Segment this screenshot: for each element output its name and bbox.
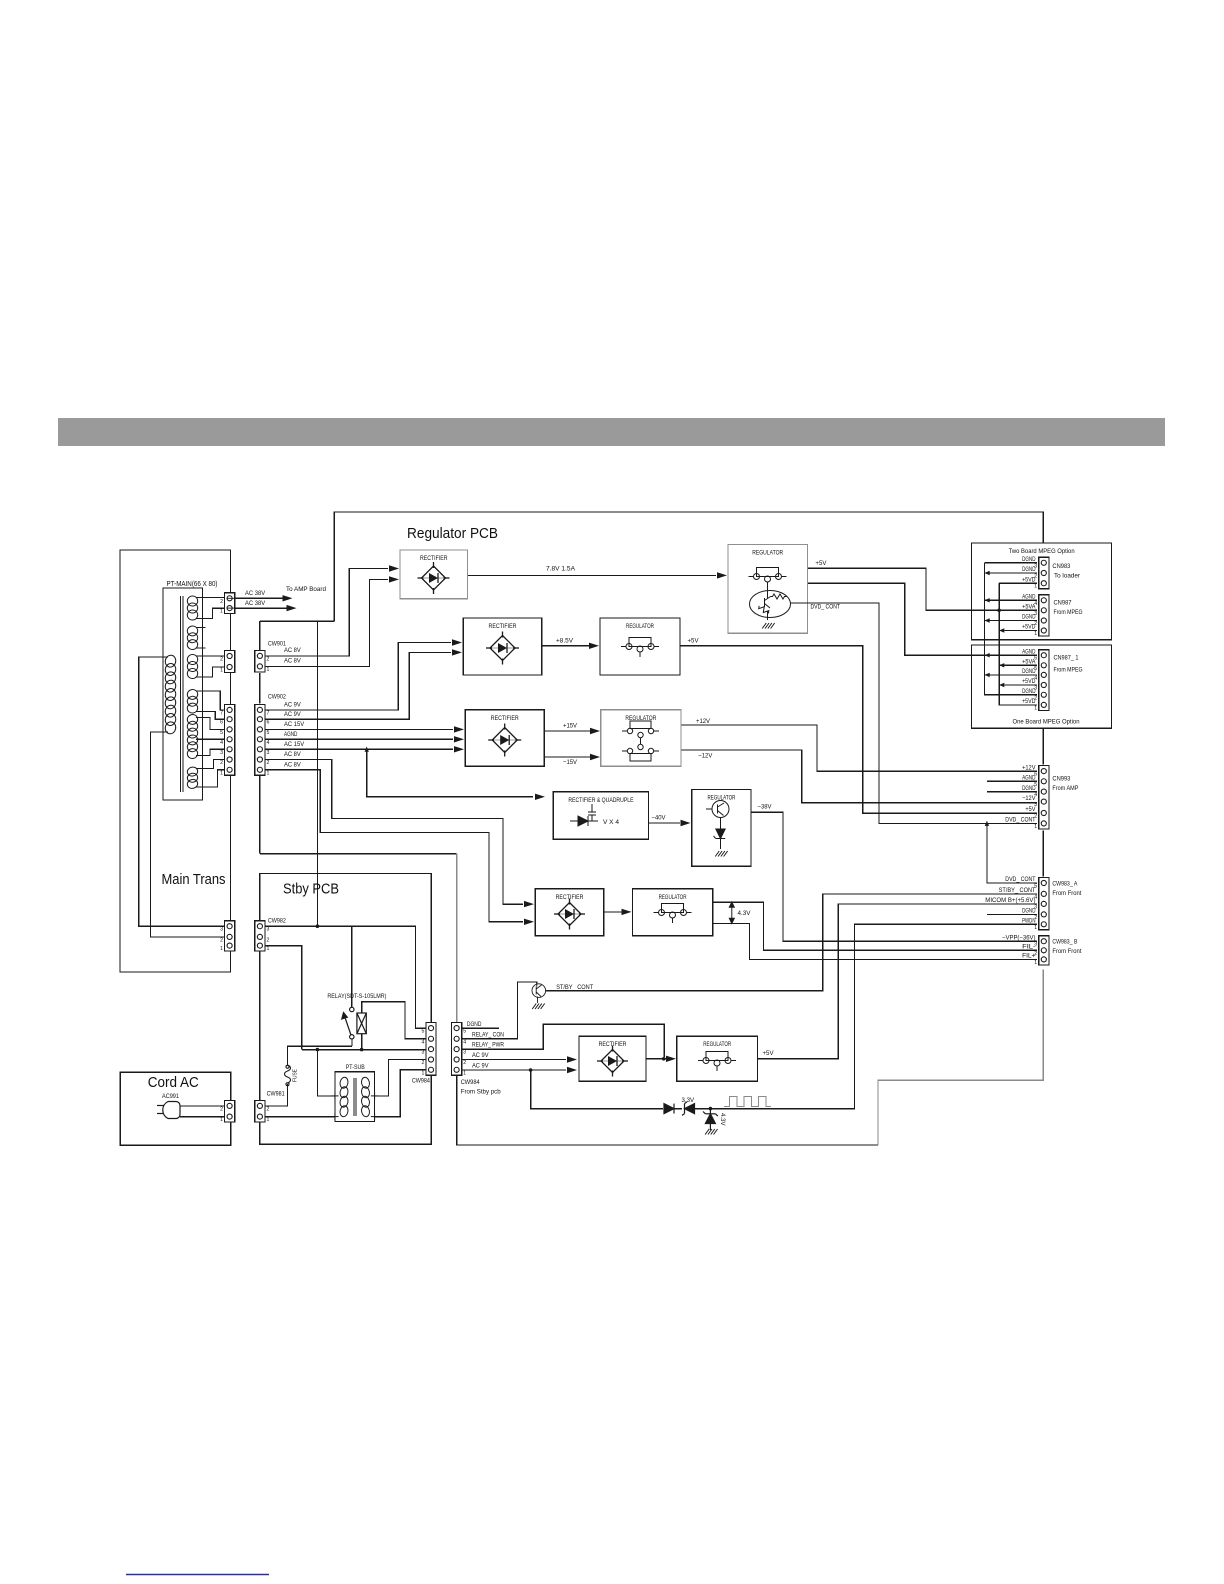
arrowhead rectifier3 in 1 (454, 726, 464, 732)
svg-text:AC 8V: AC 8V (284, 658, 301, 665)
transformer secondary winding S2 (186, 625, 198, 650)
arrowhead regulator2 in (589, 643, 599, 649)
transformer secondary winding S4 (AC 9V) (186, 689, 198, 714)
svg-text:+5V: +5V (688, 637, 700, 644)
wire AC 8V CW902 pin1 to rectifier5 (265, 770, 523, 922)
wire DGND CN987_1 pin2 (985, 694, 1038, 696)
regulator internals REG4 (706, 801, 729, 850)
arrowhead AC 38V top (283, 595, 293, 601)
wire AC 8V CW901 pin1 to rectifier1 (265, 579, 388, 666)
bridge symbol REC1 (418, 562, 450, 594)
wire PT-SUB secondary top to CN984 pin2 (375, 1060, 426, 1096)
svg-text:AC 9V: AC 9V (472, 1052, 489, 1059)
svg-text:1: 1 (267, 667, 270, 673)
wire reg1 gnd to CN987_1 AGND (808, 583, 1038, 655)
svg-text:2: 2 (1034, 621, 1037, 627)
svg-text:AGND: AGND (1022, 648, 1036, 655)
Cord AC board outline (120, 1072, 230, 1145)
wire DGND CW983_A stub (987, 913, 1037, 915)
waveform pulse symbol (724, 1097, 771, 1107)
arrowhead AC 38V bottom (287, 605, 297, 611)
svg-text:From MPEG: From MPEG (1054, 609, 1083, 616)
decor (58, 418, 1165, 446)
connector CW984 (main side) (452, 1023, 467, 1077)
regulator symbol REG5 (654, 904, 692, 924)
svg-text:3.3V: 3.3V (682, 1098, 695, 1104)
wire +5V reg2 to CN993 (680, 646, 1037, 813)
svg-text:5: 5 (267, 730, 270, 736)
connector CW901 (255, 650, 270, 673)
svg-text:+15V: +15V (563, 723, 578, 730)
wire -38V reg4 to CW983_B -VPP (751, 812, 1037, 941)
svg-text:6: 6 (1034, 772, 1037, 778)
wire PT-SUB primary top (317, 1050, 335, 1096)
arrowhead rectifier1 in top (389, 565, 399, 571)
svg-text:2: 2 (267, 760, 270, 766)
wire S5 mid tap to CN pin4 (196, 738, 225, 740)
fuse F901 (285, 1065, 291, 1086)
wire S1 top to AC38V pin2 (196, 597, 225, 599)
svg-text:CW981: CW981 (267, 1090, 285, 1097)
wire S4 top to CN pin7 (196, 691, 225, 710)
regulator block REG1 (728, 545, 808, 634)
wire +5VD CN987_1 pin3 (999, 684, 1037, 686)
transformer secondary winding S1 (AC 38V) (186, 595, 198, 621)
svg-text:1: 1 (1034, 960, 1037, 966)
wire DGND CN983 pin3 (985, 562, 1038, 564)
svg-text:1: 1 (422, 1070, 425, 1076)
Main Trans board outline (120, 550, 231, 972)
junction arrow +5VD 987 (999, 628, 1004, 632)
wire DVD_CONT branch to CW983_A (987, 823, 1037, 883)
svg-text:RECTIFIER & QUADRUPLE: RECTIFIER & QUADRUPLE (568, 797, 634, 804)
regulator block REG3 (601, 710, 681, 767)
svg-text:AC 9V: AC 9V (284, 711, 301, 718)
svg-text:PT-MAIN(66 X 80): PT-MAIN(66 X 80) (167, 581, 218, 588)
wire relay coil bottom (361, 1034, 363, 1050)
relay K901 contacts and arm (342, 1007, 354, 1039)
svg-text:RELAY_ PWR: RELAY_ PWR (472, 1042, 504, 1049)
arrowhead regulator1 in (717, 572, 727, 578)
relay K901 coil (357, 1013, 366, 1034)
svg-text:−15V: −15V (563, 759, 578, 766)
wire AC 15V CW902 pin3 to rectifier3 (265, 748, 453, 750)
connector PT-MAIN secondary (7-pin) (220, 704, 235, 776)
connector CN984 (stby side) (422, 1023, 437, 1077)
svg-text:2: 2 (220, 1106, 223, 1112)
junction PT-SUB primary branch (316, 1048, 320, 1052)
wire S3 top to pin2 (196, 655, 225, 657)
wire stby 5V rail to MPEG box (334, 512, 1043, 621)
wire reg5 out FIL- (713, 902, 1037, 950)
regulator block REG6 (677, 1036, 758, 1081)
wire rail segment CW901 strip top (260, 620, 335, 622)
wire S3 bottom to pin1 (196, 667, 225, 677)
wire +5VA CN987 pin3 (926, 609, 1037, 611)
svg-text:4.3V: 4.3V (719, 1113, 725, 1126)
svg-text:1: 1 (463, 1070, 466, 1076)
svg-text:CN993: CN993 (1052, 776, 1070, 783)
svg-text:RECTIFIER: RECTIFIER (491, 715, 519, 722)
svg-text:2: 2 (267, 1106, 270, 1112)
svg-text:3: 3 (463, 1050, 466, 1056)
svg-text:Stby PCB: Stby PCB (283, 882, 339, 898)
wire +5V reg1 to CN987 +5VA (808, 568, 1038, 610)
connector CW983_A (1034, 878, 1049, 931)
arrowhead rectifier5 in bottom (524, 919, 534, 925)
svg-text:2: 2 (267, 937, 270, 943)
svg-text:6: 6 (220, 720, 223, 726)
svg-text:−12V: −12V (698, 753, 713, 760)
svg-text:5: 5 (220, 730, 223, 736)
connector CW982 (255, 921, 270, 952)
wire relay coil to CN984 pin4 (362, 1002, 426, 1039)
diode D1 (664, 1104, 674, 1114)
svg-text:REGULATOR: REGULATOR (703, 1041, 731, 1048)
arrowhead rectifier3 in 2 (454, 736, 464, 742)
wire AC 8V CW901 pin2 to rectifier1 (265, 569, 388, 656)
wire RELAY_CON to transistor Q901 collector (462, 982, 537, 1039)
wire strip CW901-CW902 link (259, 621, 261, 854)
svg-text:7: 7 (220, 710, 223, 716)
wire RELAY_PWR to rect6 output (462, 1024, 664, 1057)
One Board MPEG Option box (972, 645, 1112, 728)
wire One Board box to CN993 (1042, 728, 1044, 764)
wire +5VA CN987_1 pin5 (999, 664, 1037, 666)
rectifier block REC6 (579, 1036, 646, 1081)
svg-text:AGND: AGND (284, 731, 298, 738)
connector PT-MAIN primary (3-pin) (220, 921, 235, 952)
wire AC 9V CW984 pin2 to rectifier6 (462, 1059, 566, 1061)
svg-text:−40V: −40V (652, 815, 667, 822)
wire relay contact bottom to fuse line (351, 1039, 353, 1046)
wire rectifier1 out 7.8V (468, 574, 717, 576)
wire S6 bottom to CN pin1 (196, 770, 225, 787)
svg-text:CN987_ 1: CN987_ 1 (1054, 655, 1079, 662)
svg-text:CW984: CW984 (461, 1079, 480, 1086)
svg-text:1: 1 (1034, 631, 1037, 637)
svg-text:REGULATOR: REGULATOR (752, 550, 783, 557)
wire PT-SUB primary bottom to CW981 pin1 (265, 1116, 335, 1118)
wire -12V reg3 to CN993 (681, 750, 1037, 803)
svg-text:DVD_ CONT: DVD_ CONT (811, 604, 841, 611)
svg-text:3: 3 (1034, 563, 1037, 569)
svg-text:AC 8V: AC 8V (284, 762, 301, 769)
svg-text:1: 1 (220, 770, 223, 776)
svg-text:To AMP Board: To AMP Board (286, 586, 326, 593)
arrowhead rectifier1 in bottom (389, 576, 399, 582)
wire AC 9V CW902 pin7 to rectifier2 (265, 643, 451, 710)
wire gray return path to CW983_B (878, 970, 1043, 1146)
wire AC 38V pin2 to AMP board (235, 597, 290, 599)
wire +5V reg6 to CW983_A MICOM (758, 904, 1037, 1059)
wire +5VD CN987_1 pin1 (999, 704, 1037, 706)
bridge symbol REC2 (486, 632, 519, 665)
svg-text:DGND: DGND (467, 1021, 482, 1028)
svg-text:2: 2 (1034, 695, 1037, 701)
svg-text:AC 9V: AC 9V (472, 1063, 489, 1070)
junction +5VA/+5VD bus (997, 609, 1001, 613)
connector CW983_B (1034, 936, 1049, 966)
AC plug symbol AC991 (157, 1102, 180, 1119)
wire S5 top to CN pin5 (196, 718, 225, 730)
svg-text:Cord AC: Cord AC (148, 1075, 199, 1091)
wire S5 bottom to CN pin3 (196, 749, 225, 755)
ground inside REG1 (762, 623, 774, 629)
svg-text:1: 1 (1034, 824, 1037, 830)
svg-text:AC 8V: AC 8V (284, 647, 301, 654)
svg-text:2: 2 (220, 937, 223, 943)
svg-text:1: 1 (1034, 584, 1037, 590)
Two Board MPEG Option box (972, 543, 1112, 640)
wire AGND CW902 pin4 to rectifier3 (265, 738, 453, 740)
connector CN987_1 (1034, 650, 1049, 712)
wire CW982 pin1 down (265, 946, 302, 1050)
wire S2 stub bottom (196, 647, 206, 649)
rectifier block REC1 (400, 550, 468, 599)
svg-text:7.8V 1.5A: 7.8V 1.5A (546, 566, 576, 573)
svg-text:1: 1 (220, 946, 223, 952)
svg-text:2: 2 (1034, 814, 1037, 820)
wire S4 bottom to CN pin6 (196, 712, 225, 720)
wire rectifier2 out +8.5V (542, 645, 589, 647)
svg-text:RECTIFIER: RECTIFIER (489, 623, 517, 630)
junction relay coil bottom (360, 1048, 364, 1052)
svg-text:2: 2 (1034, 574, 1037, 580)
regulator block REG4 (692, 790, 751, 867)
svg-text:1: 1 (267, 946, 270, 952)
svg-text:2: 2 (1034, 951, 1037, 957)
svg-text:ST/BY_ CONT: ST/BY_ CONT (999, 887, 1036, 894)
junction stby rail (316, 924, 320, 928)
wire plug to connector pin1 (180, 1116, 225, 1118)
svg-text:From MPEG: From MPEG (1054, 667, 1083, 674)
PT-SUB terminal marks (331, 1092, 378, 1120)
wire CN993 to CW983_A (1042, 830, 1044, 876)
svg-text:1: 1 (267, 770, 270, 776)
svg-text:1: 1 (220, 668, 223, 674)
svg-text:REGULATOR: REGULATOR (659, 894, 687, 901)
svg-text:1: 1 (220, 1117, 223, 1123)
wire AGND CN987_1 pin6 (905, 654, 1037, 656)
svg-text:CW983_ A: CW983_ A (1052, 881, 1078, 888)
svg-text:DGND: DGND (1022, 556, 1036, 563)
wire primary top to connector pin3 (139, 657, 225, 926)
ground inside REG4 (715, 851, 727, 857)
svg-text:AC991: AC991 (162, 1093, 179, 1100)
wire PT-SUB secondary bottom to CN984 pin1 (375, 1070, 426, 1117)
ground at Q901 emitter (532, 1004, 544, 1010)
wire relay contact feed (351, 926, 353, 1007)
svg-text:2: 2 (463, 1060, 466, 1066)
svg-text:+12V: +12V (1022, 764, 1036, 771)
svg-text:7: 7 (267, 710, 270, 716)
arrowhead rectifier3 in 3 (454, 746, 464, 752)
wire CW981 pin2 to fuse (265, 1084, 288, 1106)
wire zener junction to PWDN net (693, 924, 1038, 1108)
svg-text:2: 2 (422, 1060, 425, 1066)
svg-text:V X 4: V X 4 (603, 819, 620, 826)
svg-text:DVD_ CONT: DVD_ CONT (1005, 876, 1035, 883)
svg-text:CW982: CW982 (268, 918, 286, 925)
decor blue rule (126, 1574, 269, 1576)
junction arrow DVD_CONT branch (985, 821, 989, 826)
svg-text:AC 15V: AC 15V (284, 741, 305, 748)
regulator symbols REG3 (dual) (622, 721, 659, 761)
wire DGND CN993 stub (987, 791, 1037, 793)
connector CN993 (1034, 766, 1049, 830)
svg-text:CW902: CW902 (268, 694, 286, 701)
wire rectifier3 out +15V (544, 730, 590, 732)
connector CW981 (255, 1100, 270, 1123)
regulator symbol REG1 (749, 568, 787, 588)
svg-text:AC 38V: AC 38V (245, 600, 266, 607)
svg-text:Main Trans: Main Trans (162, 872, 226, 888)
wire AC 8V CW902 pin2 to rectifier5 (265, 760, 523, 905)
svg-text:ST/BY_ CONT: ST/BY_ CONT (556, 984, 593, 991)
svg-text:5: 5 (422, 1029, 425, 1035)
arrowhead regulator5 in (622, 909, 632, 915)
wire plug to connector pin2 (180, 1105, 225, 1107)
junction rectifier6 out / relay pwr (662, 1057, 666, 1061)
svg-text:3: 3 (1034, 686, 1037, 692)
svg-text:+5V: +5V (815, 560, 827, 567)
svg-text:AC 38V: AC 38V (245, 590, 266, 597)
wire +12V reg3 to CN993 (681, 725, 1037, 771)
wire fuse to relay contact (288, 1046, 352, 1066)
svg-text:RECTIFIER: RECTIFIER (420, 555, 448, 562)
svg-text:To loader: To loader (1054, 573, 1080, 580)
wire +5VD CN983 pin1 (999, 582, 1037, 584)
svg-text:+5V: +5V (763, 1050, 775, 1057)
wire strip to CW984 vertical (456, 854, 458, 1023)
transformer PT-MAIN body (163, 588, 203, 800)
wire rectifier3 out -15V (544, 756, 590, 758)
PT-SUB secondary winding (361, 1077, 371, 1118)
svg-text:3: 3 (1034, 904, 1037, 910)
arrowhead regulator3 in top (590, 728, 600, 734)
svg-text:3: 3 (1034, 611, 1037, 617)
svg-text:2: 2 (220, 599, 223, 605)
svg-text:4: 4 (220, 740, 223, 746)
wire AGND CN993 stub (987, 780, 1037, 782)
wire AC 9V CW984 pin1 to rectifier6 (462, 1069, 566, 1071)
wire branch AC15V to quadrupler (367, 749, 533, 797)
wire diode link (674, 1108, 682, 1110)
svg-text:2: 2 (1034, 915, 1037, 921)
svg-text:2: 2 (267, 656, 270, 662)
svg-text:3: 3 (1034, 802, 1037, 808)
bridge symbol REC5 (554, 899, 585, 930)
svg-text:−VPP(−36V): −VPP(−36V) (1002, 934, 1036, 941)
junction AC9V branch (529, 1068, 533, 1072)
transformer secondary winding S3 (AC 8V) (186, 653, 198, 679)
rectifier block REC3 (465, 710, 544, 767)
svg-text:From Stby pcb: From Stby pcb (461, 1089, 501, 1096)
wire reg5 out FIL+ (713, 924, 1037, 960)
svg-text:3: 3 (267, 927, 270, 933)
svg-text:CN983: CN983 (1052, 563, 1070, 570)
svg-text:CW983_ B: CW983_ B (1052, 939, 1077, 946)
svg-text:6: 6 (267, 720, 270, 726)
wire quadrupler out -40V (649, 822, 680, 824)
svg-text:Regulator PCB: Regulator PCB (407, 526, 498, 542)
wire S1 bottom to AC38V pin1 (196, 608, 225, 618)
svg-text:4: 4 (1034, 675, 1037, 681)
svg-text:1: 1 (220, 609, 223, 615)
svg-text:1: 1 (267, 1117, 270, 1123)
wire primary bottom to connector pin2 (150, 732, 224, 937)
wire strip to CW984 horizontal (260, 853, 457, 855)
svg-text:1: 1 (1034, 925, 1037, 931)
svg-text:1: 1 (1034, 705, 1037, 711)
connector CN983 (1034, 557, 1049, 589)
regulator block REG2 (600, 618, 680, 675)
wire DGND stub CW984 (462, 1027, 499, 1029)
arrowhead quadrupler in (535, 794, 545, 800)
svg-text:From Front: From Front (1052, 890, 1081, 897)
arrowhead rectifier2 in bottom (452, 649, 462, 655)
wire DVD_CONT reg1 to CN993 (795, 603, 1037, 823)
svg-text:5: 5 (1034, 884, 1037, 890)
svg-text:3: 3 (422, 1050, 425, 1056)
zener diode D2 3.3V (682, 1102, 695, 1116)
wire rectifier6 out (646, 1058, 666, 1060)
wire DGND CN987 pin2 (985, 620, 1038, 622)
svg-text:AGND: AGND (1022, 594, 1036, 601)
transformer secondary winding S6 (AC 8V) (186, 766, 198, 789)
wire DGND CN983 pin2 (985, 572, 1038, 574)
wire DGND CN987_1 pin4 (985, 674, 1038, 676)
arrowhead regulator6 in (666, 1056, 676, 1062)
wire neutral line to CN984 pin3 (302, 1049, 426, 1051)
svg-text:5: 5 (1034, 666, 1037, 672)
svg-text:3: 3 (220, 927, 223, 933)
svg-text:+12V: +12V (696, 718, 711, 725)
connector CW902 (255, 704, 270, 776)
connector CN987 (1034, 595, 1049, 637)
wire ST/BY_CONT Q901 to CW983_A (546, 894, 1037, 991)
wire AC 15V CW902 pin5 to rectifier3 (265, 728, 453, 730)
wire S2 stub top (196, 627, 206, 629)
junction arrow +5VD3 987_1 (999, 683, 1004, 687)
Stby PCB board outline (260, 874, 432, 1145)
connector PT-MAIN S3 (2-pin) (220, 651, 235, 674)
svg-text:FUSE: FUSE (293, 1069, 299, 1082)
junction zener tap (709, 1107, 713, 1111)
wire S6 top to CN pin2 (196, 760, 225, 769)
transistor Q901 ST/BY (532, 984, 546, 1003)
svg-text:+8.5V: +8.5V (556, 637, 574, 644)
svg-text:4: 4 (422, 1039, 425, 1045)
arrowhead rectifier6 in 1 (567, 1056, 577, 1062)
regulator symbol REG6 (698, 1052, 736, 1072)
svg-text:From AMP: From AMP (1052, 785, 1078, 792)
arrowhead rectifier6 in 2 (567, 1067, 577, 1073)
junction arrow AC15V branch (365, 747, 369, 752)
svg-text:4: 4 (267, 740, 270, 746)
rectifier block REC2 (463, 618, 541, 675)
svg-text:MICOM B+(+5.6V): MICOM B+(+5.6V) (985, 897, 1035, 904)
junction arrow AGND 987 (985, 598, 990, 602)
svg-text:CW901: CW901 (268, 641, 286, 648)
svg-text:6: 6 (1034, 656, 1037, 662)
svg-text:4: 4 (1034, 601, 1037, 607)
PT-SUB core lines (354, 1078, 356, 1116)
svg-text:2: 2 (220, 760, 223, 766)
wire +5VD CN987 pin1 (999, 630, 1037, 632)
regulator symbol REG2 (621, 638, 659, 658)
